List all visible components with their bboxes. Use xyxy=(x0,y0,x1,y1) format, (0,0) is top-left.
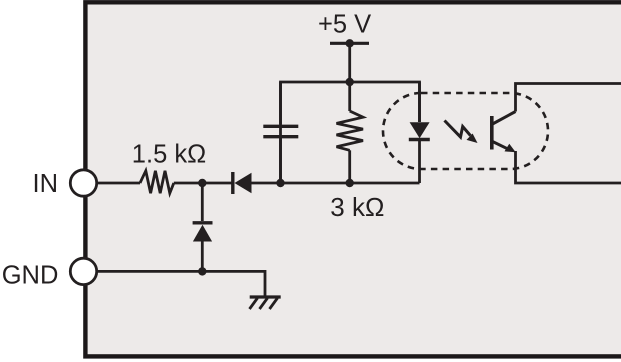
capacitor C1 xyxy=(263,82,298,183)
node A junction xyxy=(198,179,206,187)
node junction bottom rail xyxy=(346,179,354,187)
node B junction xyxy=(276,179,284,187)
diode D2 (clamp, cathode up) xyxy=(193,183,213,271)
diode D1 (series, cathode left) xyxy=(233,172,252,194)
wire diode to node B xyxy=(251,182,281,185)
chassis ground xyxy=(250,297,281,309)
svg-text:IN: IN xyxy=(33,170,59,198)
node junction on GND rail xyxy=(198,267,206,275)
phototransistor Q1 xyxy=(492,112,516,153)
wire collector to output rail xyxy=(516,84,621,112)
wire bottom rail to LED xyxy=(281,182,420,185)
svg-text:3 kΩ: 3 kΩ xyxy=(330,192,384,222)
light arrow xyxy=(445,121,478,144)
terminal GND xyxy=(70,258,96,284)
svg-text:+5 V: +5 V xyxy=(318,11,371,39)
+5V supply bar xyxy=(330,42,369,45)
wire resistor to node A xyxy=(174,182,232,185)
junction on +5V bar xyxy=(346,39,354,47)
wire GND rail xyxy=(97,271,265,296)
wire +5V down to top rail xyxy=(348,43,351,82)
optocoupler dashed outline U1 xyxy=(383,93,548,169)
wire top rail (cap corner to LED corner) xyxy=(281,82,420,183)
terminal IN xyxy=(70,170,96,196)
resistor R1 1.5 kOhm xyxy=(140,171,174,193)
LED (opto emitter) xyxy=(409,82,430,183)
wire emitter to output rail xyxy=(516,151,621,183)
resistor 3 kOhm xyxy=(337,82,364,183)
svg-text:1.5 kΩ: 1.5 kΩ xyxy=(132,140,206,168)
wire IN to resistor xyxy=(97,182,140,185)
svg-text:GND: GND xyxy=(2,261,59,289)
node junction top rail xyxy=(346,78,354,86)
